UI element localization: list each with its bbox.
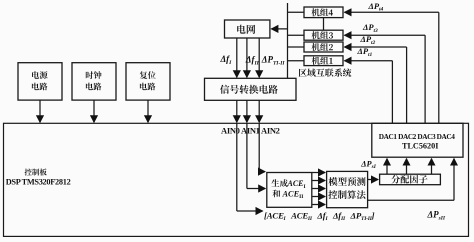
box: model predictive control 模型预测控制算法: [327, 171, 368, 207]
box: signal conversion 信号转换电路: [205, 78, 297, 100]
arrow: MPC to 分配因子: [368, 179, 378, 181]
arrow: 信号转换电路 AIN2 to board: [258, 100, 260, 122]
arrow: AIN0 to state vector: [237, 210, 263, 212]
wire: connector 机组4 to 机组3: [323, 18, 325, 31]
arrow: 电网 Δf_II down to 信号转换电路: [246, 38, 248, 77]
arrow: ΔP_t1 into 机组1: [345, 60, 393, 62]
svg-text:AIN0 AIN1 AIN2: AIN0 AIN1 AIN2: [221, 126, 280, 136]
svg-text:DSP TMS320F2812: DSP TMS320F2812: [6, 178, 71, 187]
wire: DAC4 feedback vertical: [438, 12, 440, 123]
label 电源: [32, 71, 48, 79]
arrow: 分配因子 to DAC1: [386, 159, 388, 175]
svg-text:ΔfI: ΔfI: [220, 54, 233, 66]
arrow: ΔP_t3 into 机组3: [345, 34, 426, 36]
box: allocation factor 分配因子: [380, 174, 441, 185]
label 复位: [140, 71, 156, 79]
arrow: 电网 Δf_I down to 信号转换电路: [236, 38, 238, 77]
arrow: AIN1 into ACE box: [247, 188, 265, 190]
arrow: 信号转换电路 AIN1 to board: [246, 100, 248, 122]
arrow: state vector into MPC #1: [312, 172, 325, 174]
svg-text:ΔPt1: ΔPt1: [357, 46, 373, 58]
label 电网: [237, 25, 255, 34]
wire: bus tap to 机组1: [288, 60, 305, 62]
wire: bus tap to 机组4: [288, 11, 305, 13]
arrow: state vector into MPC #3: [312, 188, 325, 190]
box: generate ACE 生成ACE: [267, 173, 312, 208]
arrow: 信号转换电路 AIN0 to board: [236, 100, 238, 122]
svg-text:ΔPTI-II: ΔPTI-II: [261, 55, 286, 67]
box: DAC TLC5620I: [372, 123, 463, 157]
label 信号转换电路: [220, 85, 278, 94]
arrow: bus into 电网: [271, 28, 287, 30]
svg-text:ACEII: ACEII: [282, 190, 304, 201]
arrow: 分配因子 to DAC3: [431, 159, 433, 175]
box: control board DSP 控制板: [4, 123, 469, 236]
label 电路: [32, 83, 48, 91]
arrow: 电源电路 to 控制板: [39, 100, 41, 122]
svg-text:ACEI: ACEI: [287, 179, 306, 190]
wire: AIN0 down inside board: [236, 123, 238, 211]
svg-text:ΔPsII: ΔPsII: [427, 210, 446, 222]
label 时钟: [86, 71, 102, 79]
wire: DAC1 feedback vertical: [391, 61, 393, 124]
wire: bus tap to 机组3: [288, 34, 305, 36]
label 控制算法: [328, 190, 365, 199]
arrow: 复位电路 to 控制板: [147, 100, 149, 122]
label 区域互联系统: [299, 68, 352, 76]
wire: DAC3 feedback vertical: [424, 35, 426, 123]
svg-text:TLC5620I: TLC5620I: [402, 142, 438, 151]
wire: AIN1 down inside board: [246, 123, 248, 188]
wire: MPC ΔP_sII out horizontal: [368, 199, 454, 201]
box: unit1 机组1: [304, 56, 343, 66]
box: unit4 机组4: [304, 7, 343, 18]
label 生成: [272, 179, 288, 187]
box: reset circuit 复位电路: [126, 63, 170, 100]
label 机组1: [312, 57, 333, 65]
label 和: [273, 190, 281, 198]
arrow: state vector into MPC #4: [312, 196, 325, 198]
svg-text:ΔPt4: ΔPt4: [368, 1, 384, 13]
box: unit3 机组3: [304, 30, 343, 40]
arrow: 分配因子 to DAC2: [406, 159, 408, 175]
arrow: ΔP_t2 into 机组2: [345, 46, 407, 48]
label 机组2: [312, 43, 333, 51]
label 控制板: [25, 169, 47, 176]
box: clock circuit 时钟电路: [72, 63, 116, 100]
wire: DAC2 feedback vertical: [406, 47, 408, 123]
box: unit2 机组2: [304, 42, 343, 52]
box: power grid 电网: [225, 20, 270, 38]
arrow: state vector into MPC #2: [312, 180, 325, 182]
arrow: ΔP_sII up to DAC4: [453, 159, 455, 201]
label 机组4: [311, 8, 333, 16]
label 分配因子: [391, 175, 427, 184]
svg-text:DAC1 DAC2 DAC3 DAC4: DAC1 DAC2 DAC3 DAC4: [379, 132, 455, 141]
label 电路: [86, 83, 102, 91]
box: power-supply circuit 电源电路: [18, 63, 62, 100]
wire: bus tap to 机组2: [288, 46, 305, 48]
wire: interconnection bus vertical: [287, 3, 289, 78]
label 机组3: [312, 31, 334, 39]
svg-text:[ACEIACEIIΔfIΔfIIΔPTI-II]: [ACEIACEIIΔfIΔfIIΔPTI-II]: [264, 210, 375, 222]
arrow: 时钟电路 to 控制板: [93, 100, 95, 122]
label 电路: [140, 83, 156, 91]
wire: AIN2 down inside board: [258, 123, 260, 171]
svg-text:ΔPt3: ΔPt3: [362, 22, 378, 34]
arrow: state vector into MPC #5: [312, 204, 325, 206]
svg-text:ΔPsI: ΔPsI: [360, 159, 376, 170]
svg-text:ΔPt2: ΔPt2: [360, 34, 376, 46]
label 模型预测: [329, 177, 366, 186]
arrow: ΔP_t4 into 机组4: [345, 11, 439, 13]
arrow: 电网 ΔP down to 信号转换电路: [258, 38, 260, 77]
arrow: AIN2 into ACE box top: [259, 171, 265, 173]
